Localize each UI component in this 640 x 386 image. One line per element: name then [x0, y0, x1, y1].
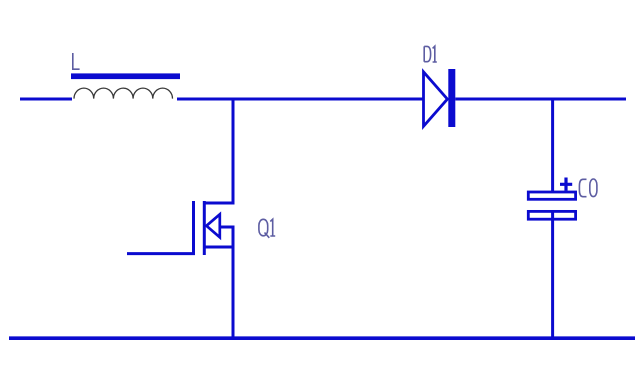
capacitor C0 polarity plus: [560, 178, 572, 191]
inductor L top bar: [71, 73, 180, 79]
diode D1 cathode bar: [448, 69, 455, 127]
label L: [73, 53, 80, 69]
capacitor C0 top plate: [528, 192, 575, 199]
diode D1 triangle (anode): [424, 72, 448, 126]
transistor Q1 (N-channel MOSFET): [194, 201, 235, 255]
label Q1: [259, 219, 275, 238]
wire: Q1 gate lead: [127, 252, 195, 255]
wire: bottom ground rail: [9, 336, 635, 340]
wire: C0 to bottom rail: [551, 211, 554, 339]
label C0: [579, 179, 596, 197]
wire: Q1 source to bottom rail: [232, 247, 235, 338]
wire: Q1 drain riser from top rail: [204, 98, 233, 204]
wire: top rail from D1 cathode to right end: [455, 98, 626, 101]
capacitor C0 bottom plate: [528, 211, 575, 219]
wire: output node down to C0: [551, 98, 554, 192]
label D1: [424, 46, 437, 62]
inductor L coil: [74, 88, 172, 99]
wire: input stub left of L: [20, 98, 72, 101]
wire: top rail from L to D1 anode: [177, 98, 423, 101]
